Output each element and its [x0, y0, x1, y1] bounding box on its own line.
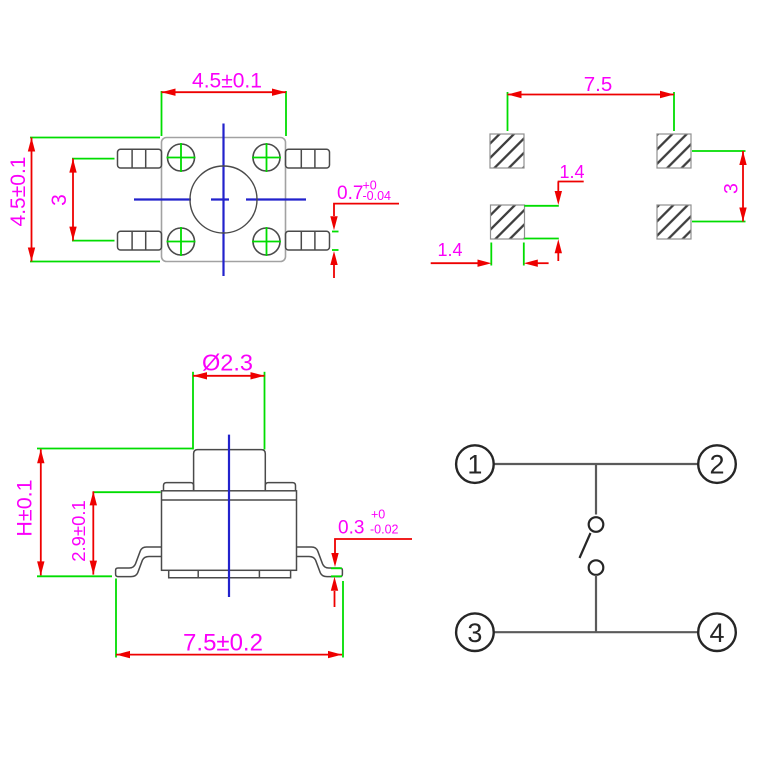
- svg-text:-0.04: -0.04: [363, 189, 392, 203]
- svg-text:3: 3: [48, 194, 71, 206]
- dimension 2.9±0.1: extension line: [93, 491, 161, 493]
- switch actuator lever: [580, 533, 591, 558]
- wire: terminal 1 to terminal 2: [494, 463, 699, 465]
- dimension 0.3 +0/-0.02: extension ticks: [331, 568, 342, 576]
- dimension Ø2.3: dimension line with arrows: [193, 372, 265, 379]
- dimension 0.7 +0/-0.04: value label: [337, 179, 391, 205]
- top view: mounting circle top-right with green cross: [252, 143, 281, 172]
- dimension 0.7 +0/-0.04 lead width: leader and arrows: [330, 204, 399, 278]
- dimension 1.4 pad width: leader with arrows: [431, 260, 549, 267]
- svg-text:1.4: 1.4: [437, 240, 462, 260]
- terminal 1: [456, 445, 494, 483]
- switch lower fixed contact: [589, 560, 604, 575]
- top view: vertical centerline: [222, 124, 224, 277]
- top view: mounting circle bottom-left with green cross: [167, 227, 196, 256]
- side view: left gull-wing lead: [116, 547, 162, 577]
- side view: plunger: [194, 450, 266, 491]
- svg-text:4.5±0.1: 4.5±0.1: [192, 70, 262, 93]
- dimension H±0.1: dimension line with arrows: [37, 449, 44, 575]
- dimension 4.5±0.1 left height: extension lines: [30, 138, 160, 262]
- dimension 2.9±0.1: dimension line with arrows: [90, 491, 97, 574]
- dimension 4.5±0.1 top width: extension lines: [162, 91, 287, 136]
- dimension H±0.1: extension lines: [37, 449, 193, 577]
- svg-text:3: 3: [721, 183, 743, 194]
- svg-text:4: 4: [709, 618, 724, 648]
- dimension 1.4 pad height: extension lines: [524, 206, 559, 239]
- terminal 3: [456, 613, 494, 651]
- svg-text:1.4: 1.4: [559, 162, 584, 182]
- top view: pin 3 bottom-left lead: [118, 231, 162, 250]
- side view: vertical centerline: [228, 435, 230, 597]
- top view: horizontal centerline: [134, 198, 306, 200]
- dimension 7.5±0.2: extension lines: [116, 579, 343, 658]
- wire: top junction down to upper contact: [595, 464, 597, 515]
- svg-text:0.7: 0.7: [337, 183, 363, 204]
- side view: cap ledge left: [164, 483, 194, 491]
- top view: center button circle: [190, 166, 257, 233]
- terminal 4: [698, 613, 736, 651]
- dimension 3 pad row spacing: dimension line with arrows: [739, 151, 746, 222]
- wire: lower contact down to bottom junction: [595, 575, 597, 632]
- svg-text:0.3: 0.3: [338, 518, 364, 539]
- land pattern: pad bottom-right: [657, 205, 691, 239]
- top view: pin 4 bottom-right lead: [286, 231, 330, 250]
- side view: body outline: [162, 491, 297, 571]
- dimension 3 pin spacing: dimension line with arrows: [69, 159, 76, 241]
- dimension 7.5±0.2: dimension line with arrows: [116, 651, 342, 658]
- land pattern: pad top-right: [657, 134, 691, 168]
- terminal 2: [698, 445, 736, 483]
- svg-text:+0: +0: [371, 508, 385, 522]
- svg-text:7.5: 7.5: [584, 73, 613, 96]
- svg-text:3: 3: [467, 618, 482, 648]
- land pattern: pad top-left: [490, 134, 524, 168]
- dimension 7.5 pad span: dimension line with arrows: [508, 91, 675, 98]
- dimension 4.5±0.1 top width: dimension line with arrows: [162, 89, 287, 96]
- side view: base feet: [169, 570, 291, 578]
- dimension 1.4 pad height: value label with underline: [558, 162, 585, 182]
- side view: cap ledge right: [265, 483, 295, 491]
- svg-text:7.5±0.2: 7.5±0.2: [183, 630, 263, 657]
- svg-text:Ø2.3: Ø2.3: [202, 350, 253, 376]
- switch upper fixed contact: [589, 517, 604, 532]
- dimension 4.5±0.1 left height: dimension line with arrows: [28, 138, 35, 262]
- wire: terminal 3 to terminal 4: [494, 631, 699, 633]
- dimension 3 pad row spacing: extension lines: [692, 151, 746, 222]
- svg-text:H±0.1: H±0.1: [13, 479, 37, 536]
- top view: pin 2 top-right lead: [286, 149, 330, 168]
- top view: switch body outline: [162, 138, 286, 262]
- dimension 3 pin spacing: extension lines: [72, 159, 115, 241]
- top view: mounting circle top-left with green cross: [167, 143, 196, 172]
- dimension 1.4 pad height: leader with arrows: [555, 182, 562, 262]
- svg-text:4.5±0.1: 4.5±0.1: [7, 157, 30, 227]
- svg-text:2.9±0.1: 2.9±0.1: [68, 500, 89, 562]
- dimension 7.5 pad span: extension lines: [508, 92, 675, 131]
- side view: right gull-wing lead: [297, 547, 343, 577]
- land pattern: pad bottom-left: [491, 205, 525, 239]
- dimension 0.3 +0/-0.02: leader and arrows: [331, 539, 412, 607]
- dimension 1.4 pad width: extension lines: [491, 243, 524, 266]
- svg-text:-0.02: -0.02: [370, 523, 399, 537]
- top view: mounting circle bottom-right with green cross: [252, 227, 281, 256]
- svg-text:2: 2: [709, 450, 724, 480]
- dimension 0.7 +0/-0.04 lead width: extension ticks: [332, 232, 339, 251]
- dimension Ø2.3: extension lines: [193, 372, 265, 450]
- dimension 0.3 +0/-0.02: value label: [338, 508, 399, 539]
- svg-text:1: 1: [467, 450, 482, 480]
- top view: pin 1 top-left lead: [118, 149, 162, 168]
